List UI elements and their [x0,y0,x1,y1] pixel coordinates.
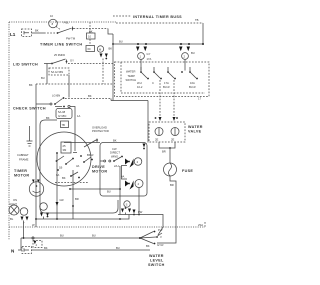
lid switch plug [41,68,69,80]
wire corner down [108,29,113,35]
svg-text:BU-R: BU-R [163,85,170,89]
neutral plug [18,247,32,254]
water temp switch label [126,70,137,83]
svg-text:17A: 17A [147,57,152,61]
svg-text:BU: BU [60,234,64,238]
wire dashed spin row [65,94,111,99]
wire valve merge [159,142,175,154]
svg-text:BK: BK [35,29,39,33]
svg-text:SWITCH: SWITCH [126,78,137,82]
connector cluster C [121,207,136,215]
temp contacts 4 [181,71,198,89]
svg-text:GY: GY [147,52,151,56]
svg-text:GY-BN: GY-BN [58,114,66,118]
svg-text:BU: BU [41,76,45,80]
terminal box 10 [87,22,96,39]
wire BR drop [72,170,79,219]
wire TB down [202,23,204,44]
wire plug drop [68,75,70,98]
check switch second pole [55,105,80,152]
svg-text:WIND: WIND [111,154,118,158]
svg-text:WATER: WATER [188,125,203,129]
wire riser 2 [173,80,175,118]
connector cluster A [20,208,28,238]
svg-text:10-2: 10-2 [137,85,143,89]
svg-text:4A: 4A [121,175,124,179]
wire bus y219 [35,210,163,235]
svg-text:BU: BU [191,51,195,55]
svg-text:2E: 2E [155,138,158,142]
svg-text:FUSE: FUSE [182,169,193,173]
svg-text:TIMER: TIMER [14,169,27,173]
svg-text:BL: BL [10,217,14,221]
water level switch contacts [139,228,164,248]
wire spin solid [111,99,148,101]
svg-text:16A: 16A [190,81,195,85]
svg-text:LG-BN: LG-BN [52,94,60,98]
svg-text:BK: BK [29,83,33,87]
svg-text:5A-08: 5A-08 [58,110,66,114]
wire down x147 [147,101,149,143]
svg-text:DRIVE: DRIVE [92,165,105,169]
wire dashed [44,32,56,34]
notch dashed [198,97,201,101]
svg-text:ON: ON [13,198,17,202]
terminal box 60 [86,39,95,52]
temp contacts 3 [163,71,176,89]
svg-text:7B: 7B [62,123,65,127]
svg-text:LID SWITCH: LID SWITCH [13,63,38,67]
temp cam 1 [138,52,152,61]
wire circle4 drop [138,188,140,216]
internal timer buss wire [116,18,203,23]
cabinet frame box [17,153,29,162]
svg-text:INTERNAL TIMER BUSS: INTERNAL TIMER BUSS [133,15,182,19]
valve coil 1 [155,128,163,142]
svg-text:BK: BK [62,176,66,180]
svg-text:1B: 1B [59,166,62,170]
svg-text:V: V [160,235,162,239]
internal timer buss label [113,15,182,19]
svg-text:PROTECTOR: PROTECTOR [92,129,109,133]
motor switch M [97,46,112,52]
svg-text:25: 25 [63,144,66,148]
wire valve feed 1 [155,117,162,121]
svg-text:OVERLOAD: OVERLOAD [92,126,107,130]
wire main right vertical [112,34,114,101]
wire down from lid switch [46,64,48,85]
water valve box [149,122,185,142]
svg-text:BK-R: BK-R [87,153,93,157]
wire BU cross [69,188,120,193]
ground cabinet [27,126,33,146]
temp contacts 2 [152,71,162,85]
wire GR drop [56,152,64,219]
on light lamp [9,205,19,221]
capacitor row wire [64,142,100,144]
connector P1 [22,29,32,37]
terminal box 7B [46,116,69,128]
wire BK to right [74,29,109,34]
svg-text:1A: 1A [77,114,80,118]
timer line switch label [40,43,82,47]
svg-text:C: C [152,81,154,85]
svg-text:P-V: P-V [158,228,163,232]
drive motor M1 [37,132,91,186]
direction label [110,144,146,159]
svg-text:GR: GR [60,198,64,202]
buss connector triangles 1 [136,47,147,52]
connector triangles [100,54,108,60]
svg-text:17A: 17A [164,81,169,85]
direction switch contacts [100,156,123,168]
node N [11,249,15,254]
motor start circle [124,201,130,207]
wire dashed lid to right [68,63,113,65]
motor lower contacts [70,172,80,178]
wire left main vertical [35,84,37,227]
svg-text:DIRECT: DIRECT [110,151,120,155]
svg-text:GY-R: GY-R [157,243,164,247]
timer motor TM [29,180,43,197]
svg-text:BU: BU [116,246,120,250]
check switch label [13,107,46,111]
buss connector triangles 2 [179,47,190,52]
svg-text:5A GY-BN: 5A GY-BN [51,70,63,74]
wire bus y238 [21,234,140,240]
drive motor label [92,165,107,174]
svg-text:17: 17 [198,97,201,101]
svg-text:3A: 3A [76,164,79,168]
svg-text:BU: BU [107,190,111,194]
wire valve feed 2 [173,117,178,121]
motor plug bowtie 2 [121,166,143,190]
timer cam 8 [49,19,61,30]
direction box B [100,143,147,197]
timer line switch contacts [57,21,76,41]
wire cam1 down [140,60,142,71]
timer motor label [14,169,29,178]
contact risers [141,67,190,71]
svg-text:BU-R: BU-R [189,85,196,89]
wire dashed row y84 [29,83,113,87]
motor plug bowtie 1 [125,158,142,168]
fuse F1 [164,148,194,176]
svg-text:BK: BK [44,246,48,250]
valve coil 2 [171,128,179,142]
svg-text:BR: BR [170,183,174,187]
check switch plug [56,109,72,119]
lid switch label [13,63,38,67]
motor enclosure outline [40,120,118,213]
svg-text:CABINET: CABINET [17,153,29,157]
svg-text:BK: BK [146,244,150,248]
lid switch contacts [44,59,74,65]
svg-text:Y-BL: Y-BL [63,21,69,25]
svg-text:BR: BR [75,197,79,201]
svg-text:WATER: WATER [126,70,135,74]
wire inside box B [119,166,121,215]
wire neutral [32,246,151,250]
wire fuse down BR [157,176,176,243]
wire riser 1 [159,80,161,118]
wire cam2 down [184,60,186,71]
svg-text:LEVEL: LEVEL [150,259,164,263]
svg-text:BK: BK [109,47,113,51]
svg-text:L1: L1 [10,32,16,37]
motor winding contacts [55,153,93,183]
wire dashed down [102,59,104,85]
neutral connector 4 [21,238,42,250]
check switch contacts [36,94,64,106]
border bottom dashed [9,221,205,227]
svg-text:6A: 6A [56,173,59,177]
border left dashed [8,22,10,240]
svg-text:TIMER LINE SWITCH: TIMER LINE SWITCH [40,43,82,47]
wire BK [32,29,45,34]
svg-text:GY: GY [70,59,74,63]
svg-text:CHECK SWITCH: CHECK SWITCH [13,107,46,111]
svg-text:PW-TM: PW-TM [66,37,76,41]
svg-text:PW: PW [138,210,143,214]
svg-text:S: S [126,203,128,207]
svg-text:TEMP: TEMP [128,74,136,78]
svg-text:MOTOR: MOTOR [14,174,29,178]
capacitor box [61,142,71,153]
svg-text:10: 10 [50,14,53,18]
svg-text:CW: CW [112,147,117,151]
water temp switch box [115,62,210,97]
water level switch label [148,254,165,267]
svg-text:BK: BK [88,94,92,98]
svg-text:10: 10 [88,35,91,39]
svg-text:BU: BU [119,40,123,44]
temp cam 2 [182,51,195,59]
temp contacts 1 [137,71,149,89]
svg-text:TB: TB [195,18,199,22]
svg-text:60: 60 [88,47,91,51]
water valve label [188,125,203,134]
connector cluster B [40,203,49,219]
svg-text:WATER: WATER [149,254,164,258]
capacitor label [54,53,65,57]
svg-text:W-2: W-2 [137,81,142,85]
svg-text:BU: BU [92,234,96,238]
overload protector label [92,126,109,134]
terminal mark [50,14,53,18]
border top dashed [9,21,116,23]
svg-text:2A-1: 2A-1 [114,164,120,168]
svg-text:SWITCH: SWITCH [148,263,165,267]
svg-text:BK: BK [113,139,117,143]
svg-text:2E: 2E [171,138,174,142]
svg-text:VALVE: VALVE [188,130,202,134]
svg-text:BK: BK [46,116,50,120]
overload arm [84,139,117,148]
node L1 [10,32,16,37]
svg-text:FRAME: FRAME [19,158,29,162]
on light label [9,198,17,206]
svg-text:25 3MFD: 25 3MFD [54,53,65,57]
svg-text:BR: BR [162,150,166,154]
water temp bus [112,40,204,46]
svg-text:2SA: 2SA [198,223,203,227]
